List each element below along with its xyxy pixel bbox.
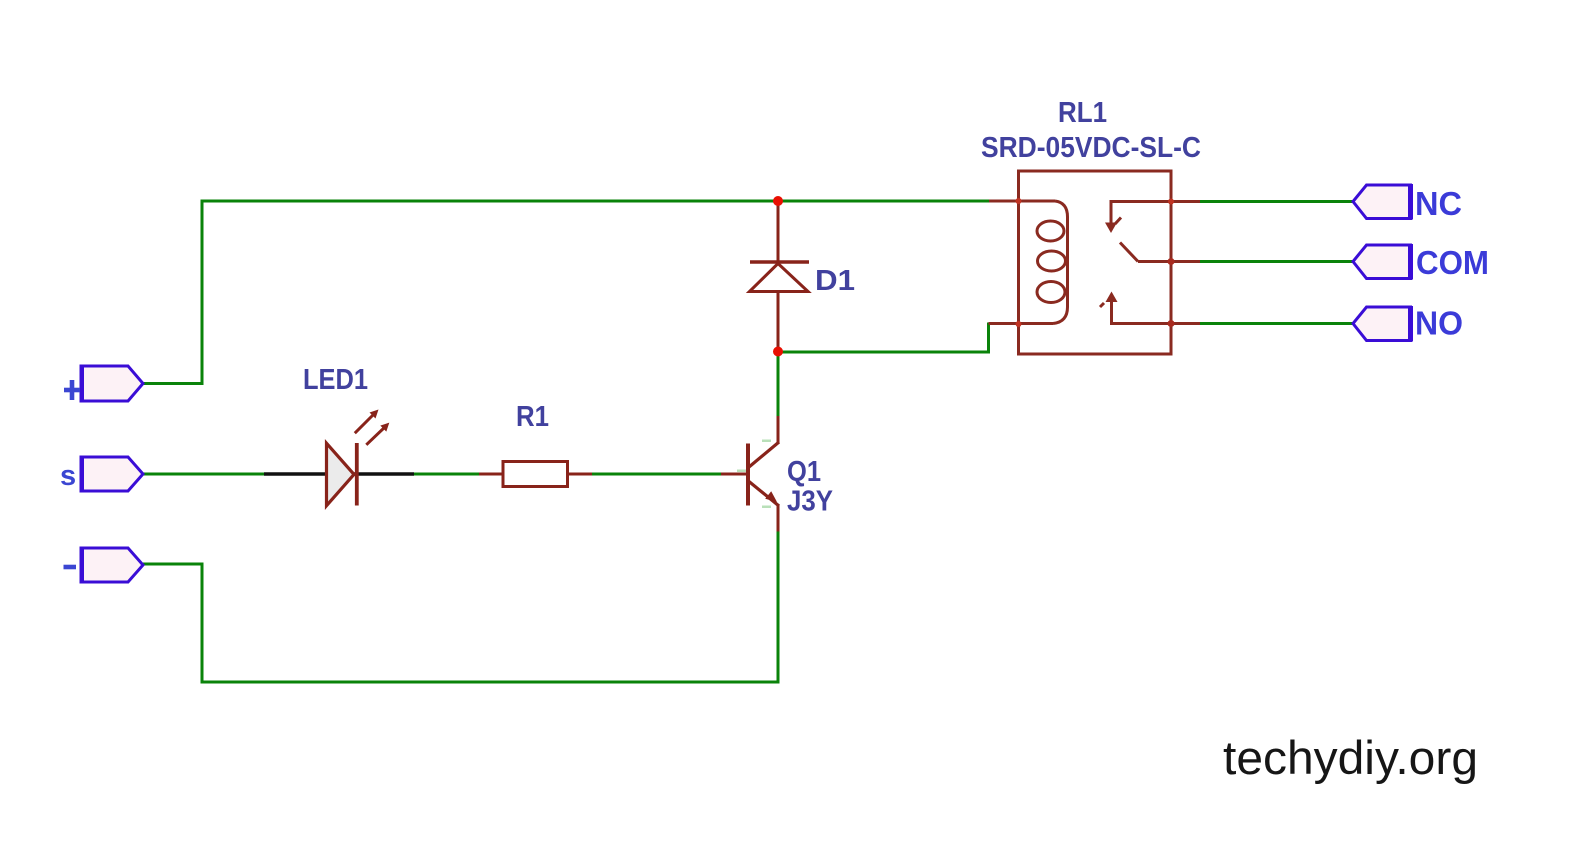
relay coil loop 1 <box>1037 221 1064 241</box>
port connector NC <box>1353 185 1411 219</box>
port connector COM <box>1353 245 1411 279</box>
svg-text:NC: NC <box>1415 185 1462 222</box>
port connector minus <box>81 548 143 582</box>
relay coil pin top <box>989 200 1055 203</box>
svg-text:techydiy.org: techydiy.org <box>1223 731 1478 784</box>
relay pin stub COM <box>1171 260 1200 263</box>
svg-text:COM: COM <box>1416 244 1489 281</box>
svg-text:R1: R1 <box>516 401 549 433</box>
resistor R1 <box>479 462 592 487</box>
wire: resistor to transistor base (green) <box>592 473 721 476</box>
svg-text:NO: NO <box>1415 305 1463 342</box>
relay coil pin bottom <box>989 322 1054 325</box>
relay pin stub NC <box>1171 200 1200 203</box>
svg-text:J3Y: J3Y <box>787 486 833 518</box>
relay RL1 box <box>1019 171 1172 354</box>
relay pin stub NO <box>1171 322 1200 325</box>
svg-text:D1: D1 <box>815 265 855 297</box>
relay coil loop 3 <box>1037 282 1065 303</box>
junction node: D1 bottom / collector <box>773 347 783 357</box>
LED LED1 <box>327 410 390 506</box>
relay coil loop 2 <box>1038 251 1066 271</box>
svg-text:LED1: LED1 <box>303 364 368 396</box>
port connector NO <box>1353 307 1411 341</box>
svg-text:s: s <box>60 460 76 492</box>
net label minus <box>64 565 77 570</box>
diode D1 <box>750 201 810 352</box>
wire: collector column green from D1 junction down to Q1 <box>777 352 780 416</box>
relay pin junction dots <box>1016 198 1022 204</box>
junction node: top rail / D1 <box>773 196 783 206</box>
port connector s <box>81 457 143 491</box>
wire: signal s to LED (green) <box>143 473 264 476</box>
relay switch blade to COM <box>1120 243 1171 262</box>
relay NC contact with down arrow <box>1105 202 1171 234</box>
wire: black LED lead segment <box>264 472 414 476</box>
svg-text:Q1: Q1 <box>787 456 821 488</box>
relay coil body <box>1053 201 1068 324</box>
wire: NO green <box>1200 322 1354 325</box>
port connector + <box>81 366 143 401</box>
wire: LED to resistor (green) <box>414 473 479 476</box>
net label + <box>64 380 80 400</box>
svg-text:RL1: RL1 <box>1058 97 1107 129</box>
svg-text:SRD-05VDC-SL-C: SRD-05VDC-SL-C <box>981 132 1201 164</box>
wire: NC green <box>1200 200 1354 203</box>
wire: minus connector down along left, bottom rail, up to emitter <box>143 531 778 682</box>
wire + rail: from plus connector up and across to relay coil top <box>143 201 989 384</box>
wire: D1 bottom junction to relay coil bottom (green elbow) <box>778 324 990 352</box>
transistor Q1 <box>721 416 779 532</box>
wire: COM green <box>1200 260 1354 263</box>
relay NO contact with up arrow <box>1100 292 1171 324</box>
